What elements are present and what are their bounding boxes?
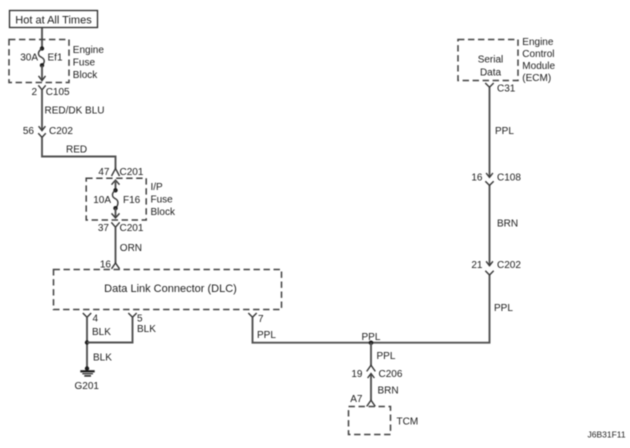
svg-text:Control: Control [522,49,554,60]
svg-text:16: 16 [100,259,112,270]
svg-text:Module: Module [522,61,555,72]
svg-text:(ECM): (ECM) [522,73,551,84]
svg-text:2: 2 [31,87,37,98]
svg-text:Engine: Engine [73,45,105,56]
svg-text:Engine: Engine [522,37,554,48]
svg-text:PPL: PPL [495,126,514,137]
svg-text:Fuse: Fuse [73,58,96,69]
svg-text:Fuse: Fuse [151,195,174,206]
svg-text:PPL: PPL [257,330,276,341]
svg-text:A7: A7 [350,394,363,405]
svg-text:Hot at All Times: Hot at All Times [15,15,92,27]
svg-text:F16: F16 [123,195,141,206]
svg-text:I/P: I/P [151,182,164,193]
svg-text:ORN: ORN [120,243,142,254]
svg-text:BRN: BRN [378,386,399,397]
svg-text:19: 19 [351,369,363,380]
svg-text:BLK: BLK [92,327,111,338]
svg-text:Serial: Serial [478,55,504,66]
svg-text:C201: C201 [120,167,144,178]
svg-text:C201: C201 [120,223,144,234]
svg-text:C202: C202 [497,260,521,271]
svg-text:21: 21 [471,260,483,271]
svg-text:37: 37 [98,223,110,234]
svg-text:BLK: BLK [137,324,156,335]
svg-text:PPL: PPL [494,303,513,314]
svg-text:C31: C31 [497,84,516,95]
svg-text:BRN: BRN [497,219,518,230]
svg-text:RED/DK BLU: RED/DK BLU [45,106,105,117]
svg-text:C105: C105 [46,87,70,98]
svg-text:PPL: PPL [377,351,396,362]
svg-text:C202: C202 [49,126,73,137]
svg-text:G201: G201 [75,381,100,392]
svg-text:C206: C206 [379,369,403,380]
svg-text:30A: 30A [20,53,38,64]
svg-text:Data: Data [480,67,502,78]
svg-text:Block: Block [151,207,176,218]
svg-text:7: 7 [258,314,264,325]
svg-text:Ef1: Ef1 [48,53,63,64]
svg-text:56: 56 [23,126,35,137]
svg-text:C108: C108 [497,173,521,184]
svg-text:TCM: TCM [397,417,419,428]
svg-text:47: 47 [98,167,110,178]
svg-text:5: 5 [137,313,143,324]
svg-text:Block: Block [73,70,98,81]
svg-text:4: 4 [93,313,99,324]
svg-text:BLK: BLK [93,353,112,364]
svg-text:10A: 10A [93,195,111,206]
svg-text:J6B31F11: J6B31F11 [588,430,626,440]
svg-text:16: 16 [471,173,483,184]
svg-text:Data Link Connector (DLC): Data Link Connector (DLC) [104,283,237,295]
svg-text:RED: RED [66,145,87,156]
